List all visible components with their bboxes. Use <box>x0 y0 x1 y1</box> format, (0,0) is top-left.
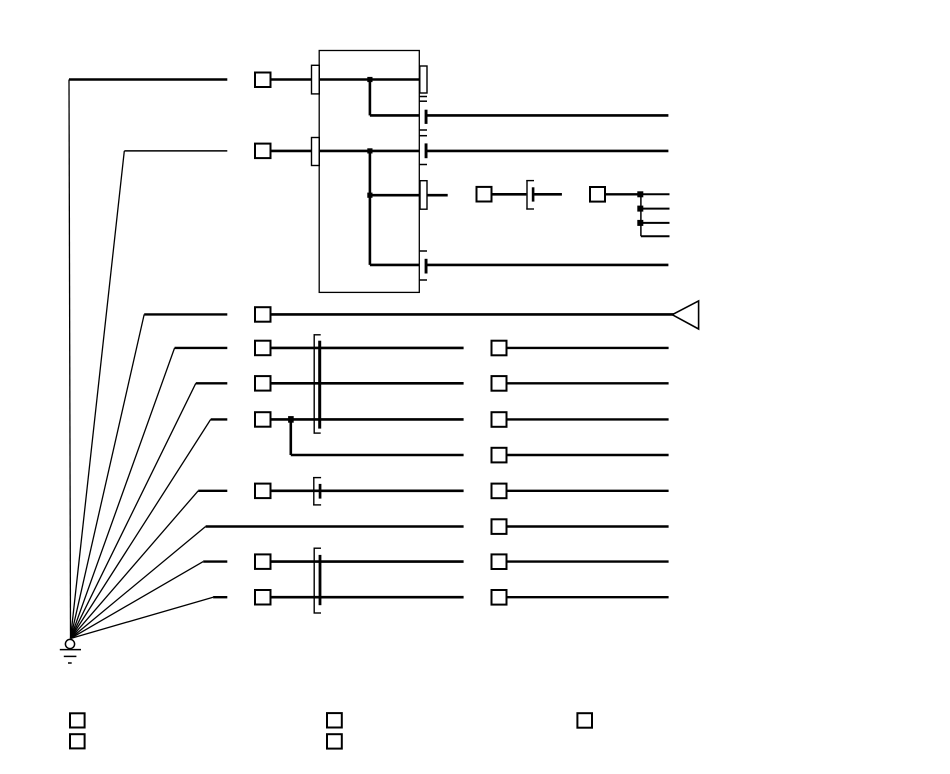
shield S1 bar <box>318 341 321 429</box>
wire row1 square to pin <box>271 78 312 81</box>
wire m4-row diagonal to ground <box>71 491 199 639</box>
terminal square right-col 5 <box>492 484 507 499</box>
terminal square m4-row left <box>255 484 271 499</box>
terminal square row3 A <box>477 187 492 202</box>
wire right-col 7 <box>507 560 669 562</box>
wire right-col 2 <box>507 382 669 384</box>
pin P4 on connector right edge <box>420 181 427 210</box>
wire right-col 1 <box>507 347 669 349</box>
terminal square row1 <box>255 73 271 88</box>
terminal square m2-row left <box>255 376 271 391</box>
wire m7-row left segment <box>213 596 227 598</box>
wire m4-row main <box>271 489 464 492</box>
wire triangle-row diagonal to ground <box>71 314 145 638</box>
shield S3 bottom tick <box>314 612 322 614</box>
capacitor C3 bottom tick <box>419 279 427 281</box>
wire row1 left segment <box>69 78 227 81</box>
capacitor C2 plate bar <box>425 143 428 158</box>
shield S2 bottom tick <box>313 504 321 506</box>
capacitor C4 bottom tick <box>526 208 534 210</box>
wire branch A horizontal <box>370 114 419 117</box>
terminal square m1-row left <box>255 341 271 356</box>
capacitor C1 bottom tick <box>419 129 427 131</box>
wire m3-row left segment <box>211 418 228 420</box>
wire branch A vertical <box>369 80 372 116</box>
terminal square right-col 1 <box>492 341 507 356</box>
wire branch C horizontal <box>291 454 464 457</box>
capacitor C1 plate bar <box>425 110 428 124</box>
wire capacitor to square B <box>534 193 562 196</box>
wire stub 4 <box>641 235 670 237</box>
capacitor C4 plate bar <box>532 187 535 201</box>
legend square bottom-left 2 <box>70 734 85 748</box>
tick feed-through top <box>419 96 427 98</box>
wire row2 inside connector <box>319 150 419 153</box>
terminal square m6-row left <box>255 554 271 569</box>
wire row2 to row3 vertical <box>369 151 372 265</box>
wire row2 output <box>427 150 668 153</box>
wire row2 left segment <box>124 150 227 152</box>
shield S1 bottom tick <box>314 432 321 434</box>
shield S1 plate line (3 rows) <box>313 334 315 433</box>
terminal square right-col 2 <box>492 376 507 391</box>
wire triangle-row left segment <box>144 313 227 315</box>
capacitor C2 top tick <box>419 135 427 137</box>
wire branch A output <box>427 114 668 117</box>
wire m2-row diagonal to ground <box>71 383 196 638</box>
ground circle <box>65 639 74 648</box>
wire junction column vertical <box>640 194 642 236</box>
wire m7-row main <box>271 596 464 599</box>
capacitor C2 bottom tick <box>419 164 427 166</box>
wire right-col 6 <box>507 525 669 527</box>
terminal square right-col 6 <box>492 519 507 534</box>
wire m6-row main <box>271 560 464 563</box>
wire m6-row diagonal to ground <box>71 562 204 639</box>
wire stub 3 <box>640 222 669 224</box>
junction row2 <box>367 148 372 153</box>
shield S3 plate line (2 rows) <box>313 548 315 614</box>
shield S3 top tick <box>314 547 322 549</box>
junction row1 <box>367 77 372 82</box>
wire stub 1 <box>640 193 669 195</box>
capacitor C4 plate line <box>526 180 528 210</box>
wire branch B horizontal <box>370 264 419 267</box>
wire m4-row left segment <box>198 490 227 492</box>
terminal square m7-row left <box>255 590 271 605</box>
junction row3 <box>367 193 372 198</box>
wire right-col 3 <box>507 418 669 420</box>
ground bar 3 <box>68 662 72 664</box>
connector block U1 <box>319 51 419 293</box>
wire branch C vertical <box>289 419 292 455</box>
wire row3 horizontal <box>370 194 420 197</box>
terminal square m3-row left <box>255 412 271 427</box>
arrow connector (open triangle) <box>672 301 698 329</box>
wire ground bus vertical segment <box>69 80 71 639</box>
pin P1 on connector left edge <box>312 65 320 94</box>
ground bar 2 <box>64 655 77 657</box>
shield S3 bar <box>319 555 322 605</box>
wire right-col 8 <box>507 596 669 598</box>
terminal square right-col 3 <box>492 412 507 427</box>
terminal square row3 B <box>590 187 605 202</box>
wire m5-row diagonal to ground <box>71 527 206 639</box>
wire row2 square to pin <box>271 150 312 153</box>
wire m1-row main <box>271 347 464 350</box>
terminal square right-col 4 <box>492 448 507 463</box>
shield S2 plate line (1 row) <box>313 477 315 505</box>
legend square bottom-mid 2 <box>327 734 342 748</box>
pin P2 on connector right edge <box>420 66 427 93</box>
wire m2-row main <box>271 382 464 385</box>
wire row1 inside connector <box>319 78 419 81</box>
wire m1-row left segment <box>175 347 228 349</box>
wire m5-row long (no square) <box>206 525 464 527</box>
wire row3 A to capacitor <box>492 193 527 196</box>
capacitor C1 top tick <box>419 100 427 102</box>
wire row3 stub <box>427 194 448 197</box>
wire stub 2 <box>640 208 669 210</box>
shield S2 bar <box>319 484 322 499</box>
junction m3-row <box>288 416 294 423</box>
terminal square right-col 8 <box>492 590 507 605</box>
shield S2 top tick <box>313 477 321 479</box>
wire m1-row diagonal to ground <box>71 348 175 639</box>
junction node 2 <box>637 206 643 212</box>
wire m6-row left segment <box>203 560 227 562</box>
wire triangle-row long <box>271 313 674 316</box>
legend square bottom-mid 1 <box>327 713 342 727</box>
capacitor C3 plate bar <box>425 259 428 274</box>
junction node 1 <box>637 191 643 197</box>
ground bar 1 <box>60 649 81 651</box>
capacitor C4 top tick <box>526 180 534 182</box>
legend square bottom-right <box>577 713 592 728</box>
wire right-col 5 <box>507 490 669 492</box>
wire m3-row main <box>271 418 464 421</box>
capacitor C3 top tick <box>419 250 427 252</box>
wire row2 diagonal to ground <box>71 151 125 639</box>
wire right-col 4 <box>507 454 669 456</box>
shield S1 top tick <box>314 334 321 336</box>
terminal square row2 <box>255 144 271 159</box>
wire m7-row diagonal to ground <box>71 597 214 638</box>
wire m3-row diagonal to ground <box>71 419 211 638</box>
junction node 3 <box>637 220 643 226</box>
terminal square right-col 7 <box>492 554 507 569</box>
terminal square triangle-row <box>255 307 271 322</box>
wire m2-row left segment <box>196 382 228 384</box>
wire branch B output <box>427 264 668 267</box>
pin P3 on connector left edge <box>312 138 320 166</box>
wire square B to junction <box>605 193 640 195</box>
legend square bottom-left 1 <box>70 713 85 727</box>
